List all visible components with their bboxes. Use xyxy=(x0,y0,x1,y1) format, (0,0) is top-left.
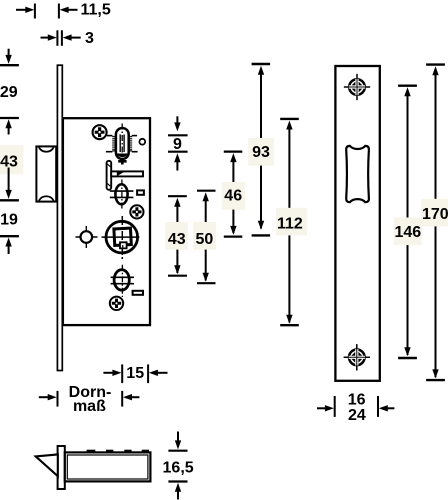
dimension 43 left xyxy=(0,119,24,200)
front screw bottom xyxy=(344,344,370,370)
dimension 46 xyxy=(222,152,245,237)
svg-text:16,5: 16,5 xyxy=(163,459,194,476)
faceplate front view (right) xyxy=(335,66,379,381)
small hole right of obround xyxy=(139,139,145,145)
front screw top xyxy=(344,74,370,100)
svg-text:maß: maß xyxy=(73,398,106,415)
dimension 16,5 xyxy=(163,432,194,500)
svg-text:43: 43 xyxy=(168,231,186,248)
bottom view: screw dashes on top edge xyxy=(87,450,149,453)
dimension 170 xyxy=(421,65,448,381)
dimension 3 xyxy=(41,30,95,47)
small hole C with crosshair xyxy=(76,226,98,248)
bottom view: case outer xyxy=(65,452,151,481)
svg-text:29: 29 xyxy=(0,84,18,101)
svg-text:3: 3 xyxy=(85,30,94,47)
small rect D xyxy=(133,291,143,295)
lock case xyxy=(63,118,150,325)
latch bolt (left protrusion) xyxy=(36,146,56,201)
oval hole D (cylinder bottom) xyxy=(111,265,134,297)
dimension 93 xyxy=(248,64,274,235)
dimension 15 xyxy=(103,364,167,383)
screw B xyxy=(130,205,143,218)
svg-text:146: 146 xyxy=(394,224,421,241)
faceplate left view (Stulp) xyxy=(57,65,62,370)
latch follower obround with springs xyxy=(106,124,138,165)
dimension 112 xyxy=(276,119,307,325)
bottom view: faceplate bar xyxy=(58,446,65,489)
spindle follower with square hole xyxy=(102,216,140,259)
svg-text:24: 24 xyxy=(348,407,366,424)
svg-text:11,5: 11,5 xyxy=(81,1,111,18)
svg-text:93: 93 xyxy=(252,144,270,161)
svg-text:19: 19 xyxy=(0,211,18,228)
spring hatch right xyxy=(129,136,133,151)
small rect B xyxy=(137,190,144,194)
dimension 16 / 24 xyxy=(317,392,394,424)
dimension 50 xyxy=(193,191,216,284)
oval hole B (cylinder top) xyxy=(110,180,134,210)
screw A (top, in case) xyxy=(93,125,107,139)
screw C xyxy=(110,297,123,310)
svg-text:170: 170 xyxy=(422,206,448,223)
dimension 19 xyxy=(0,211,19,254)
dimension 11,5 xyxy=(16,1,111,18)
svg-text:112: 112 xyxy=(277,216,303,233)
dimension 29 xyxy=(0,49,19,118)
bottom view: case inner line xyxy=(67,455,148,479)
svg-text:15: 15 xyxy=(126,365,144,382)
dimension Dornmass xyxy=(39,384,140,415)
spring hatch left xyxy=(112,136,116,151)
latch cutout in front plate xyxy=(346,146,369,202)
dimension 9 xyxy=(168,116,188,170)
dimension 43 middle xyxy=(165,196,188,276)
svg-text:50: 50 xyxy=(196,231,214,248)
bottom view: latch wedge xyxy=(36,454,58,476)
svg-text:46: 46 xyxy=(224,187,242,204)
dimension 146 xyxy=(394,86,422,358)
svg-text:9: 9 xyxy=(173,136,182,153)
T lever xyxy=(107,161,143,190)
spring end caps xyxy=(106,136,138,152)
